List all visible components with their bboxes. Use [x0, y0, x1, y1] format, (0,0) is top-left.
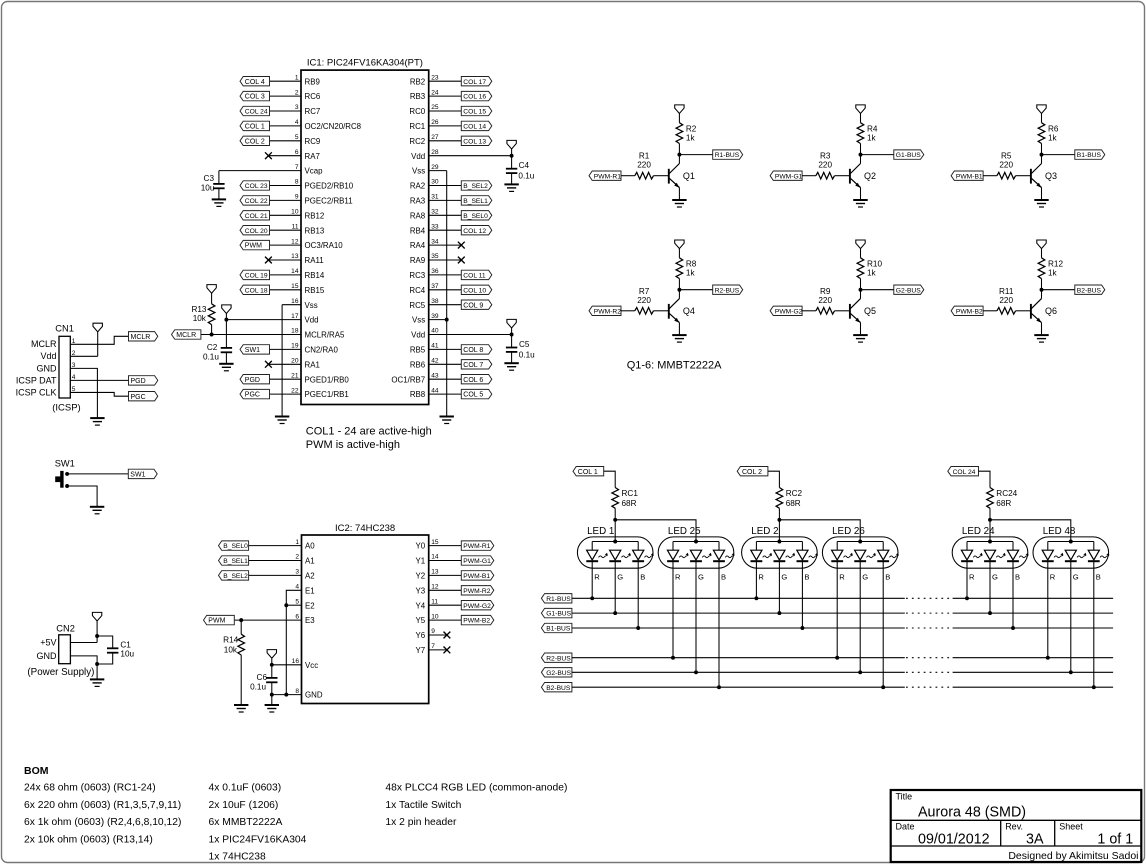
- net flag COL 12 at IC1 pin 33: [461, 226, 492, 235]
- svg-text:RA2: RA2: [410, 182, 425, 191]
- LED 26 R LED: [831, 550, 853, 659]
- net flag PWM at IC1 pin 12: [240, 240, 270, 249]
- resistor R14 10k: [223, 620, 244, 705]
- ground at Q2: [853, 200, 868, 207]
- svg-text:R7: R7: [639, 287, 650, 296]
- IC1 pin 19 CN2/RA0 wire: [270, 343, 339, 355]
- svg-text:COL 24: COL 24: [953, 469, 976, 476]
- svg-text:C2: C2: [207, 343, 218, 352]
- svg-text:C4: C4: [519, 161, 530, 170]
- note COL active-high: [306, 426, 432, 452]
- svg-text:Vdd: Vdd: [411, 331, 425, 340]
- LED 48 G LED: [1065, 550, 1087, 674]
- svg-text:C6: C6: [257, 673, 268, 682]
- wire collector to R1-BUS flag: [679, 154, 712, 156]
- svg-text:RA8: RA8: [410, 211, 426, 220]
- svg-text:Vdd: Vdd: [305, 316, 319, 325]
- resistor RC1 68R: [612, 488, 638, 520]
- LED package LED 48 PLCC4: [1033, 526, 1109, 568]
- svg-text:G: G: [617, 573, 623, 582]
- wire Vdd junction down to C2: [225, 320, 227, 348]
- svg-text:3: 3: [295, 104, 299, 111]
- svg-text:Q2: Q2: [864, 171, 876, 181]
- net flag PWM-B1 at IC2 Y2: [461, 571, 494, 580]
- IC1 pin 36 RC3 wire: [409, 268, 461, 280]
- IC2 pin 11 Y4 wire: [416, 598, 462, 610]
- svg-text:2: 2: [295, 89, 299, 96]
- net flag COL 23 at IC1 pin 8: [240, 181, 270, 190]
- IC2 pin 7 Y7 no-connect: [416, 643, 451, 655]
- wire E2 junction down to GND net: [285, 605, 287, 694]
- svg-text:COL 23: COL 23: [245, 183, 268, 190]
- svg-text:16: 16: [292, 658, 300, 665]
- IC2 pin 16 Vcc label: [292, 658, 319, 670]
- title block frame: [891, 790, 1142, 862]
- svg-text:1: 1: [295, 539, 299, 546]
- net flag COL 5 at IC1 pin 44: [461, 389, 492, 398]
- svg-text:RB2: RB2: [410, 77, 425, 86]
- net flag COL 2: [737, 467, 768, 476]
- junction RC24 anode feed: [988, 518, 992, 522]
- svg-text:R2: R2: [686, 124, 697, 133]
- net flag B_SEL0 at IC1 pin 32: [461, 211, 492, 220]
- svg-text:10: 10: [291, 209, 299, 216]
- IC2 pin 1 A0 label: [295, 539, 315, 551]
- power Vdd at CN1: [93, 323, 102, 356]
- svg-text:39: 39: [431, 313, 439, 320]
- svg-text:R6: R6: [1048, 124, 1059, 133]
- svg-text:B_SEL1: B_SEL1: [223, 558, 248, 565]
- wire collector to B2-BUS flag: [1042, 289, 1075, 291]
- IC2 pin 10 Y5 wire: [416, 613, 462, 625]
- junction collector Q6: [1040, 288, 1044, 292]
- svg-text:32: 32: [431, 209, 439, 216]
- svg-text:R1-BUS: R1-BUS: [546, 596, 571, 603]
- svg-text:GND: GND: [305, 691, 323, 700]
- svg-text:PGD: PGD: [245, 377, 260, 384]
- svg-text:RC1: RC1: [622, 489, 639, 498]
- svg-text:R: R: [969, 573, 975, 582]
- svg-text:Q6: Q6: [1045, 306, 1057, 316]
- svg-text:PGEC2/RB11: PGEC2/RB11: [305, 197, 353, 206]
- svg-text:43: 43: [431, 372, 439, 379]
- junction CN2 +5V / C1: [95, 634, 99, 638]
- power Vdd at IC1 pin28: [507, 140, 516, 155]
- IC1 pin 14 RB14 wire: [270, 268, 325, 280]
- net flag COL 22 at IC1 pin 9: [240, 196, 270, 205]
- svg-text:29: 29: [431, 164, 439, 171]
- svg-text:41: 41: [431, 343, 439, 350]
- svg-text:12: 12: [431, 584, 439, 591]
- svg-text:CN1: CN1: [55, 324, 74, 334]
- svg-text:PWM: PWM: [245, 243, 262, 250]
- IC IC2 74HC238 body: [302, 523, 429, 704]
- transistor Q3 MMBT2222A NPN: [1031, 155, 1057, 200]
- svg-text:10u: 10u: [201, 183, 215, 192]
- LED package LED 2 PLCC4: [742, 526, 818, 568]
- IC2 pin 2 A1 label: [295, 554, 314, 566]
- svg-text:COL 22: COL 22: [245, 198, 268, 205]
- IC1 pin 32 RA8 wire: [410, 209, 461, 221]
- wire COL 2 to RC2: [768, 471, 780, 487]
- IC1 pin 23 RB2 wire: [410, 74, 461, 86]
- svg-text:RB15: RB15: [305, 286, 325, 295]
- svg-text:PGC: PGC: [245, 392, 260, 399]
- wire CN2 +5V: [70, 642, 97, 644]
- wire IC2 A2 input: [249, 574, 302, 576]
- ground at IC1 Vss right: [440, 417, 454, 424]
- svg-text:RA9: RA9: [410, 256, 426, 265]
- power Vdd at Q3: [1037, 105, 1046, 123]
- junction IC1 pin40 Vdd: [510, 333, 514, 337]
- svg-text:OC1/RB7: OC1/RB7: [391, 375, 425, 384]
- svg-text:MCLR/RA5: MCLR/RA5: [305, 331, 346, 340]
- svg-text:COL 16: COL 16: [463, 94, 486, 101]
- net flag COL 1: [573, 467, 604, 476]
- svg-text:B1-BUS: B1-BUS: [1077, 152, 1102, 159]
- svg-text:5: 5: [295, 598, 299, 605]
- svg-text:C3: C3: [204, 174, 215, 183]
- power Vdd at Q5: [856, 240, 865, 258]
- svg-text:Q4: Q4: [683, 306, 695, 316]
- bus wire R1-BUS: [572, 597, 1113, 599]
- wire CN2 GND: [70, 656, 97, 664]
- power Vdd at Q6: [1037, 240, 1046, 258]
- svg-text:RC2: RC2: [786, 489, 803, 498]
- IC1 pin 30 RA2 wire: [410, 179, 461, 191]
- IC2 pin 13 Y2 wire: [416, 569, 462, 581]
- svg-text:BOM: BOM: [24, 765, 49, 777]
- wire collector to G2-BUS flag: [861, 289, 894, 291]
- junction IC1 pin28 Vdd: [510, 154, 514, 158]
- svg-text:COL 10: COL 10: [463, 287, 486, 294]
- net flag PWM-G1 at IC2 Y1: [461, 556, 494, 565]
- IC1 pin 31 RA3 wire: [410, 194, 461, 206]
- LED 1 R LED: [586, 550, 608, 600]
- capacitor C6 0.1u: [250, 665, 277, 695]
- svg-text:Y6: Y6: [416, 631, 426, 640]
- svg-text:7: 7: [431, 643, 435, 650]
- resistor R8 1k: [676, 258, 697, 290]
- svg-text:LED 24: LED 24: [962, 526, 995, 537]
- svg-text:R2-BUS: R2-BUS: [546, 655, 571, 662]
- svg-text:PWM-R2: PWM-R2: [463, 588, 490, 595]
- svg-text:68R: 68R: [996, 499, 1011, 508]
- BOM column 1: [24, 783, 181, 846]
- svg-text:6x 220 ohm (0603) (R1,3,5,7,9,: 6x 220 ohm (0603) (R1,3,5,7,9,11): [24, 800, 181, 811]
- svg-text:SW1: SW1: [130, 472, 145, 479]
- net flag G2-BUS at Q5: [894, 285, 924, 294]
- ground at IC1 pin16: [275, 417, 289, 424]
- svg-text:PWM-R2: PWM-R2: [594, 308, 621, 315]
- junction collector Q4: [677, 288, 681, 292]
- svg-text:B2-BUS: B2-BUS: [546, 685, 571, 692]
- capacitor C5 0.1u: [506, 335, 535, 364]
- svg-text:GND: GND: [37, 651, 58, 661]
- svg-text:RB3: RB3: [410, 92, 426, 101]
- resistor R10 1k: [857, 258, 882, 290]
- svg-text:G: G: [862, 573, 868, 582]
- svg-text:RC1: RC1: [409, 122, 425, 131]
- svg-text:Y5: Y5: [416, 616, 426, 625]
- IC1 pin 21 PGED1/RB0 wire: [270, 372, 350, 384]
- svg-text:4x 0.1uF (0603): 4x 0.1uF (0603): [209, 783, 282, 794]
- ground at CN2: [90, 679, 104, 686]
- svg-text:20: 20: [291, 358, 299, 365]
- capacitor C2 0.1u: [203, 343, 232, 364]
- junction E1/E2 tie: [284, 603, 288, 607]
- IC1 pin 13 RA11 no-connect: [265, 253, 324, 265]
- IC1 pin 12 OC3/RA10 wire: [270, 238, 344, 250]
- svg-text:9: 9: [431, 628, 435, 635]
- wire collector to B1-BUS flag: [1042, 154, 1075, 156]
- svg-text:R12: R12: [1048, 260, 1063, 269]
- IC1 pin 4 OC2/CN20/RC8 wire: [270, 119, 362, 131]
- svg-text:1 of 1: 1 of 1: [1097, 832, 1133, 848]
- transistor Q1 MMBT2222A NPN: [669, 155, 695, 200]
- ground at C2: [219, 364, 233, 371]
- svg-text:R1-BUS: R1-BUS: [715, 152, 740, 159]
- svg-text:B1-BUS: B1-BUS: [546, 626, 571, 633]
- BOM column 2: [209, 783, 307, 863]
- junction CN2 GND / C1: [95, 662, 99, 666]
- svg-text:PGC: PGC: [131, 394, 146, 401]
- svg-text:CN2/RA0: CN2/RA0: [305, 346, 339, 355]
- net flag B1-BUS at Q3: [1075, 150, 1105, 159]
- svg-text:COL 18: COL 18: [245, 287, 268, 294]
- capacitor C4 0.1u: [506, 156, 535, 185]
- ground at CN1: [90, 418, 104, 425]
- net flag PWM-R2 at Q4: [589, 306, 621, 315]
- capacitor C3 10u: [201, 171, 225, 200]
- net flag COL 15 at IC1 pin 25: [461, 106, 492, 115]
- svg-text:LED 48: LED 48: [1043, 526, 1076, 537]
- wire CN1 pin2 Vdd: [70, 355, 97, 357]
- net flag B_SEL0 at IC2: [219, 541, 249, 550]
- svg-text:24: 24: [431, 89, 439, 96]
- net flag B2-BUS at Q6: [1075, 285, 1105, 294]
- power Vdd at Q1: [675, 105, 684, 123]
- svg-text:SW1: SW1: [55, 458, 75, 468]
- power Vdd at CN2: [92, 612, 101, 642]
- IC2 pin 8 GND label: [295, 688, 323, 700]
- note transistor types: [627, 360, 722, 372]
- svg-text:2: 2: [295, 554, 299, 561]
- svg-text:4: 4: [295, 584, 299, 591]
- IC1 pin 33 RB4 wire: [410, 223, 461, 235]
- svg-text:IC1: PIC24FV16KA304(PT): IC1: PIC24FV16KA304(PT): [307, 58, 423, 69]
- IC1 pin 35 RA9 no-connect: [410, 253, 465, 265]
- svg-text:3: 3: [295, 569, 299, 576]
- svg-text:28: 28: [431, 149, 439, 156]
- svg-text:10u: 10u: [120, 650, 134, 659]
- svg-text:G2-BUS: G2-BUS: [896, 287, 921, 294]
- net flag PWM-G2 at Q5: [770, 306, 803, 315]
- svg-text:PWM-B2: PWM-B2: [463, 618, 490, 625]
- ground at C3: [212, 199, 226, 206]
- IC1 pin 27 RC2 wire: [409, 134, 461, 146]
- svg-text:0.1u: 0.1u: [518, 172, 534, 181]
- LED 26 B LED: [877, 550, 899, 689]
- net flag COL 4 at IC1 pin 1: [240, 77, 270, 86]
- wire base lead Q3: [983, 175, 997, 177]
- svg-text:RB4: RB4: [410, 226, 426, 235]
- svg-text:PGED2/RB10: PGED2/RB10: [305, 182, 354, 191]
- IC1 pin 29 Vss wire: [412, 164, 447, 176]
- svg-text:6: 6: [295, 613, 299, 620]
- resistor R4 1k: [857, 123, 878, 155]
- svg-text:6x 1k ohm (0603) (R2,4,6,8,10,: 6x 1k ohm (0603) (R2,4,6,8,10,12): [24, 817, 181, 828]
- svg-text:Vcc: Vcc: [305, 661, 318, 670]
- wire IC2 E3 from PWM flag: [234, 619, 301, 621]
- net flag B1-BUS: [541, 623, 572, 632]
- svg-text:PWM-G2: PWM-G2: [775, 308, 803, 315]
- net flag R2-BUS at Q4: [713, 285, 743, 294]
- svg-text:ICSP DAT: ICSP DAT: [16, 375, 57, 385]
- net flag PWM at IC2 E3: [204, 615, 235, 624]
- svg-text:B: B: [1096, 573, 1101, 582]
- LED 2 R LED: [751, 550, 773, 600]
- resistor R12 1k: [1038, 258, 1063, 290]
- net flag COL 10 at IC1 pin 37: [461, 285, 492, 294]
- resistor R5 220: [997, 152, 1031, 179]
- svg-text:Y2: Y2: [416, 572, 426, 581]
- IC1 pin 44 RB8 wire: [410, 387, 461, 399]
- svg-text:RA3: RA3: [410, 197, 426, 206]
- svg-text:RB12: RB12: [305, 211, 325, 220]
- ground at Q5: [853, 335, 868, 342]
- svg-text:PWM-G1: PWM-G1: [463, 558, 491, 565]
- wire CN2 GND to ground: [96, 664, 98, 679]
- svg-text:RC24: RC24: [996, 489, 1017, 498]
- wire COL 24 to RC24: [979, 471, 991, 487]
- junction GND / C6: [270, 693, 274, 697]
- svg-text:R1: R1: [639, 152, 650, 161]
- wire IC2 E1 to E2: [286, 590, 301, 605]
- svg-text:Y1: Y1: [416, 557, 426, 566]
- junction RC1 anode feed: [613, 518, 617, 522]
- svg-text:COL 11: COL 11: [463, 273, 486, 280]
- net flag COL 8 at IC1 pin 41: [461, 345, 492, 354]
- svg-text:B: B: [640, 573, 645, 582]
- resistor RC24 68R: [987, 488, 1018, 520]
- wire IC1 pin16 Vss to ground: [281, 305, 283, 417]
- net flag MCLR at IC1: [172, 330, 201, 339]
- svg-text:PWM-B1: PWM-B1: [463, 573, 490, 580]
- svg-text:LED 26: LED 26: [832, 526, 865, 537]
- junction R13 on MCLR wire: [210, 333, 214, 337]
- svg-text:10k: 10k: [224, 646, 238, 655]
- transistor Q5 MMBT2222A NPN: [850, 290, 876, 335]
- svg-text:G: G: [1073, 573, 1079, 582]
- LED 24 G LED: [984, 550, 1006, 615]
- svg-text:Y7: Y7: [416, 646, 426, 655]
- svg-text:220: 220: [818, 296, 832, 305]
- IC1 pin 11 RB13 wire: [270, 223, 325, 235]
- LED 1 B LED: [632, 550, 654, 630]
- junction collector Q5: [859, 288, 863, 292]
- svg-text:9: 9: [295, 194, 299, 201]
- svg-text:Title: Title: [896, 792, 913, 802]
- svg-text:40: 40: [431, 328, 439, 335]
- svg-text:+5V: +5V: [40, 638, 56, 648]
- wire IC2 GND pin: [272, 694, 302, 696]
- resistor R3 220: [816, 152, 850, 179]
- IC1 pin 42 RB6 wire: [410, 358, 461, 370]
- LED package LED 26 PLCC4: [822, 526, 898, 568]
- svg-text:RA7: RA7: [305, 152, 320, 161]
- svg-text:42: 42: [431, 358, 439, 365]
- IC1 pin 43 OC1/RB7 wire: [391, 372, 461, 384]
- svg-text:RB5: RB5: [410, 346, 426, 355]
- svg-text:RA4: RA4: [410, 241, 426, 250]
- svg-text:38: 38: [431, 298, 439, 305]
- resistor R13 10k: [191, 304, 214, 335]
- LED 24 B LED: [1007, 550, 1029, 630]
- connector CN1 ICSP body: [16, 324, 81, 414]
- ground at Q4: [672, 335, 686, 342]
- net flag COL 3 at IC1 pin 2: [240, 91, 270, 100]
- svg-text:26: 26: [431, 119, 439, 126]
- IC1 pin 39 Vss wire and junction: [412, 313, 449, 325]
- wire junction to C1 top: [97, 636, 113, 648]
- wire base lead Q4: [621, 310, 635, 312]
- net flag COL 14 at IC1 pin 26: [461, 121, 492, 130]
- IC2 pin 15 Y0 wire: [416, 539, 462, 551]
- svg-text:PGD: PGD: [131, 378, 146, 385]
- svg-text:RC9: RC9: [305, 137, 321, 146]
- IC1 pin 2 RC6 wire: [270, 89, 321, 101]
- svg-text:RB8: RB8: [410, 390, 426, 399]
- LED 25 G LED: [690, 550, 712, 674]
- IC1 pin 1 RB9 wire: [270, 74, 321, 86]
- svg-text:COL 2: COL 2: [742, 469, 762, 476]
- LED 25 R LED: [667, 550, 689, 659]
- net flag G2-BUS: [541, 668, 572, 677]
- svg-text:Vdd: Vdd: [411, 152, 425, 161]
- svg-text:LED 25: LED 25: [668, 526, 701, 537]
- wire CN1 pin1 to MCLR flag: [70, 336, 128, 344]
- ground at Q1: [672, 200, 686, 207]
- wire anode feed to LED 2: [778, 520, 780, 542]
- capacitor C1 10u: [97, 641, 134, 664]
- svg-text:1k: 1k: [1048, 134, 1058, 143]
- svg-text:RA11: RA11: [305, 256, 324, 265]
- svg-text:RC4: RC4: [409, 286, 425, 295]
- svg-text:220: 220: [999, 296, 1013, 305]
- svg-text:19: 19: [291, 343, 299, 350]
- svg-text:1x PIC24FV16KA304: 1x PIC24FV16KA304: [209, 834, 307, 845]
- svg-text:COL1 - 24 are active-high: COL1 - 24 are active-high: [306, 426, 432, 438]
- svg-text:COL 1: COL 1: [245, 124, 265, 131]
- net flag COL 1 at IC1 pin 4: [240, 121, 270, 130]
- svg-text:24x 68 ohm (0603) (RC1-24): 24x 68 ohm (0603) (RC1-24): [24, 783, 156, 794]
- svg-text:68R: 68R: [622, 499, 637, 508]
- svg-text:RB14: RB14: [305, 271, 325, 280]
- svg-text:COL 21: COL 21: [245, 213, 268, 220]
- svg-text:14: 14: [291, 268, 299, 275]
- svg-text:10: 10: [431, 613, 439, 620]
- svg-text:34: 34: [431, 238, 439, 245]
- wire base lead Q1: [621, 175, 635, 177]
- svg-text:PWM: PWM: [208, 618, 225, 625]
- wire IC2 A1 input: [249, 560, 302, 562]
- svg-text:30: 30: [431, 179, 439, 186]
- net flag PGD at CN1: [129, 376, 158, 385]
- LED 1 G LED: [609, 550, 631, 615]
- svg-text:G1-BUS: G1-BUS: [546, 611, 571, 618]
- svg-text:B: B: [885, 573, 890, 582]
